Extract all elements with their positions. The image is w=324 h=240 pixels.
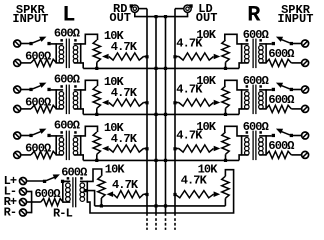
- resistor 600ohm R-L input: [41, 199, 63, 206]
- wire resistor to T1 primary bottom: [56, 62, 63, 64]
- wire 4.7K to bus1: [144, 102, 148, 104]
- wire SW4 to transformer T4 primary top: [64, 180, 70, 182]
- pot 10K row1 right: [222, 40, 229, 62]
- wire T3 secondary top to pot elbow: [74, 126, 98, 136]
- svg-text:4.7K: 4.7K: [181, 174, 208, 188]
- wire J10 sleeve down: [187, 12, 189, 17]
- transformer T4 secondary rings: [80, 183, 85, 188]
- svg-text:600Ω: 600Ω: [243, 120, 269, 134]
- transformer T7 core: [255, 131, 257, 161]
- switch SW3 blade arrowhead: [39, 129, 46, 134]
- resistor 600ohm input row1 right: [266, 59, 291, 66]
- wire T4 secondary bottom loop to right pot top: [87, 170, 233, 213]
- wire J2A to switch SW2: [21, 89, 30, 91]
- junction rail/common B R-L: [164, 204, 167, 207]
- transformer T6 secondary phase dot: [246, 85, 249, 88]
- wire J1A to switch SW1: [21, 43, 30, 45]
- wire J3A to switch SW3: [21, 135, 30, 137]
- pot wiper arrow row3 left: [102, 146, 109, 152]
- transformer T1 secondary phase dot: [74, 39, 77, 42]
- pot 10K row3 left: [93, 132, 100, 154]
- pot wiper arrow row1 right: [214, 54, 221, 60]
- transformer T2 secondary outer bar: [80, 89, 82, 109]
- wire J3B to resistor: [21, 154, 31, 156]
- switch SW5 contact 2: [272, 42, 275, 45]
- transformer T4 primary outer bar: [62, 181, 64, 203]
- wire resistor to T6 primary bottom: [259, 108, 266, 110]
- wire bus4 to 4.7K: [175, 148, 179, 150]
- wire T6 secondary bottom to rail: [239, 109, 249, 115]
- wire pot bottom to rail junction right: [225, 62, 227, 68]
- wire resistor to T5 primary bottom: [259, 62, 266, 64]
- junction pot bottom R-L left: [100, 204, 103, 207]
- transformer T5 secondary outer bar: [241, 43, 243, 63]
- junction 4.7K/bus4 row1: [173, 55, 176, 58]
- svg-text:600Ω: 600Ω: [25, 142, 51, 156]
- junction 4.7K/bus1 row3: [145, 147, 148, 150]
- wire SW5 to transformer T5 primary top: [259, 43, 272, 45]
- transformer T5 secondary rings: [245, 46, 250, 51]
- jack R- terminal: [20, 209, 27, 216]
- transformer T1 core: [65, 39, 67, 69]
- wire SW3 to transformer T3 primary top: [51, 135, 64, 137]
- jack J3B speaker input sleeve row3 L: [14, 151, 21, 158]
- jack J9 RD OUT inner ring: [133, 7, 136, 10]
- transformer T2 primary outer bar: [55, 89, 57, 109]
- wire J5A to switch SW5: [293, 43, 302, 45]
- transformer T6 primary outer bar: [265, 89, 267, 109]
- junction rail/common B row3: [164, 159, 167, 162]
- svg-text:R: R: [247, 2, 261, 27]
- wire L- down to R-: [31, 191, 33, 214]
- jack J3A speaker input tip row3 L: [14, 132, 21, 139]
- transformer T7 secondary outer bar: [241, 135, 243, 155]
- transformer T2 secondary rings: [73, 92, 78, 97]
- wire pot bottom to rail junction right: [225, 108, 227, 114]
- wire bus 2 (common A): [155, 17, 157, 216]
- transformer T7 secondary phase dot: [246, 131, 249, 134]
- jack J6B speaker input sleeve row2 R: [302, 105, 309, 112]
- wire T6 secondary top to pot elbow: [225, 80, 249, 90]
- wire resistor to T4 primary bottom: [63, 201, 70, 203]
- wire J9 tip to bus1: [138, 8, 147, 10]
- svg-text:OUT: OUT: [109, 11, 131, 25]
- wire pot bottom to rail junction right: [225, 154, 227, 160]
- switch SW6 blade: [281, 85, 290, 89]
- wire bus4 to 4.7K: [175, 56, 179, 58]
- svg-text:4.7K: 4.7K: [111, 40, 138, 54]
- svg-text:L: L: [62, 2, 75, 27]
- svg-text:600Ω: 600Ω: [54, 73, 80, 87]
- switch SW6 blade arrowhead: [276, 83, 283, 88]
- pot 10K row1 left: [93, 40, 100, 62]
- jack J2B speaker input sleeve row2 L: [14, 105, 21, 112]
- switch SW4 blade arrowhead: [53, 174, 60, 179]
- junction rail/common B row2: [164, 113, 167, 116]
- svg-text:600Ω: 600Ω: [61, 166, 87, 180]
- jack R+ terminal: [20, 199, 27, 206]
- wire pot bottom to rail junction: [96, 154, 98, 160]
- junction rail/common A row3: [154, 159, 157, 162]
- switch SW1 blade arrowhead: [39, 37, 46, 42]
- switch SW7 blade: [281, 131, 290, 135]
- transformer T7 primary rings: [259, 138, 264, 143]
- wire pot bottom to rail junction: [96, 108, 98, 114]
- switch SW1 contact 1: [29, 42, 32, 45]
- pot wiper arrow R-L right: [214, 191, 221, 197]
- transformer T2 core: [65, 85, 67, 115]
- switch SW4 contact 2: [61, 180, 64, 183]
- pot wiper arrow R-L left: [107, 191, 114, 197]
- transformer T7 primary phase dot: [259, 131, 262, 134]
- svg-text:4.7K: 4.7K: [112, 178, 139, 192]
- pot 10K R-L left: [98, 176, 105, 198]
- wire J9 sleeve down: [134, 12, 136, 17]
- switch SW4 blade: [46, 177, 55, 181]
- wire 4.7K to bus1: [144, 148, 148, 150]
- switch SW2 contact 1: [29, 88, 32, 91]
- jack J5B speaker input sleeve row1 R: [302, 59, 309, 66]
- svg-text:4.7K: 4.7K: [176, 128, 203, 142]
- wire J6B to resistor: [291, 108, 301, 110]
- resistor 4.7K row1 left: [109, 53, 144, 60]
- svg-text:R-L: R-L: [53, 207, 73, 221]
- wire T4 secondary top to pot elbow: [80, 169, 102, 181]
- wire J5B to resistor: [291, 62, 301, 64]
- wire J10 tip to bus4: [175, 8, 184, 10]
- junction 4.7K/bus4 row2: [173, 101, 176, 104]
- jack J10 LD OUT outer ring: [184, 5, 191, 12]
- switch SW7 blade arrowhead: [276, 129, 283, 134]
- transformer T3 secondary rings: [73, 138, 78, 143]
- wire T7 secondary top to pot elbow: [225, 126, 249, 136]
- svg-text:OUT: OUT: [196, 11, 218, 25]
- wire bus 3 (common B): [165, 17, 167, 216]
- transformer T7 primary outer bar: [265, 135, 267, 155]
- switch SW5 blade arrowhead: [276, 37, 283, 42]
- transformer T6 secondary rings: [245, 92, 250, 97]
- switch SW1 blade: [33, 39, 42, 43]
- junction rail/common A R-L: [154, 204, 157, 207]
- transformer T5 primary outer bar: [265, 43, 267, 63]
- wire SW7 to transformer T7 primary top: [259, 135, 272, 137]
- wire 4.7K to bus1 (R-L): [144, 193, 148, 195]
- transformer T4 secondary outer bar: [86, 181, 88, 203]
- svg-text:4.7K: 4.7K: [176, 82, 203, 96]
- switch SW2 blade arrowhead: [39, 83, 46, 88]
- wire R- right: [27, 212, 32, 214]
- transformer T5 secondary phase dot: [246, 39, 249, 42]
- pot wiper arrow row1 left: [102, 54, 109, 60]
- transformer T2 primary phase dot: [60, 85, 63, 88]
- pot 10K row3 right: [222, 132, 229, 154]
- transformer T3 primary outer bar: [55, 135, 57, 155]
- jack J10 LD OUT tab: [189, 4, 192, 7]
- svg-text:INPUT: INPUT: [277, 12, 313, 26]
- wire resistor to T3 primary bottom: [56, 154, 63, 156]
- wire T5 secondary bottom to rail: [239, 63, 249, 69]
- resistor 4.7K row1 right: [179, 53, 214, 60]
- wire J7B to resistor: [291, 154, 301, 156]
- junction pot bottom row3 left: [95, 159, 98, 162]
- switch SW3 blade: [33, 131, 42, 135]
- wire L- right: [27, 191, 32, 193]
- pot wiper arrow row2 left: [102, 100, 109, 106]
- switch SW6 contact 1: [290, 88, 293, 91]
- wire bus 4 dashed continuation: [174, 218, 176, 230]
- wire L+ to switch SW4: [27, 180, 44, 182]
- wire J6A to switch SW6: [293, 89, 302, 91]
- jack J5A speaker input tip row1 R: [302, 40, 309, 47]
- transformer T6 primary phase dot: [259, 85, 262, 88]
- wire rail row1 (pot cold sides to common buses): [83, 67, 239, 69]
- svg-text:600Ω: 600Ω: [268, 139, 294, 153]
- switch SW7 contact 1: [290, 134, 293, 137]
- pot 10K R-L right: [222, 176, 229, 198]
- switch SW5 contact 1: [290, 42, 293, 45]
- svg-text:10K: 10K: [105, 162, 126, 176]
- transformer T5 core: [255, 39, 257, 69]
- switch SW2 blade: [33, 85, 42, 89]
- wire T2 secondary bottom to rail: [74, 109, 84, 115]
- pot wiper arrow row2 right: [214, 100, 221, 106]
- svg-text:600Ω: 600Ω: [54, 119, 80, 133]
- svg-text:600Ω: 600Ω: [25, 50, 51, 64]
- jack J10 LD OUT inner ring: [186, 7, 189, 10]
- resistor 4.7K row3 left: [109, 145, 144, 152]
- junction rail/common B row1: [164, 67, 167, 70]
- transformer T4 primary phase dot: [67, 177, 70, 180]
- svg-text:600Ω: 600Ω: [25, 96, 51, 110]
- svg-text:4.7K: 4.7K: [176, 36, 203, 50]
- resistor 600ohm input row3 right: [266, 151, 291, 158]
- junction 4.7K/bus1 row2: [145, 101, 148, 104]
- junction pot bottom row1 left: [95, 67, 98, 70]
- transformer T2 primary rings: [59, 92, 64, 97]
- jack J1B speaker input sleeve row1 L: [14, 59, 21, 66]
- junction 4.7K/bus4 R-L: [173, 193, 176, 196]
- pot 10K row2 left: [93, 86, 100, 108]
- wire J7A to switch SW7: [293, 135, 302, 137]
- resistor 600ohm input row3 left: [31, 151, 56, 158]
- transformer T4 secondary phase dot: [80, 177, 83, 180]
- wire SW2 to transformer T2 primary top: [51, 89, 64, 91]
- jack J1A speaker input tip row1 L: [14, 40, 21, 47]
- transformer T2 secondary phase dot: [74, 85, 77, 88]
- svg-text:4.7K: 4.7K: [111, 132, 138, 146]
- transformer T3 core: [65, 131, 67, 161]
- svg-text:4.7K: 4.7K: [111, 86, 138, 100]
- junction sleeve bus / common B: [164, 15, 167, 18]
- svg-text:600Ω: 600Ω: [35, 187, 61, 201]
- resistor 600ohm input row2 right: [266, 105, 291, 112]
- jack J7A speaker input tip row3 R: [302, 132, 309, 139]
- transformer T5 primary phase dot: [259, 39, 262, 42]
- resistor 4.7K row2 left: [109, 99, 144, 106]
- wire T2 secondary top to pot elbow: [74, 80, 98, 90]
- jack J9 RD OUT outer ring: [131, 5, 138, 12]
- jack J7B speaker input sleeve row3 R: [302, 151, 309, 158]
- transformer T4 center tap junction: [84, 189, 87, 192]
- transformer T1 primary phase dot: [60, 39, 63, 42]
- wire rail row2 (pot cold sides to common buses): [83, 113, 239, 115]
- switch SW1 contact 2: [47, 42, 50, 45]
- transformer T3 secondary outer bar: [80, 135, 82, 155]
- transformer T3 primary rings: [59, 138, 64, 143]
- switch SW3 contact 1: [29, 134, 32, 137]
- jack L- terminal: [20, 188, 27, 195]
- transformer T1 primary outer bar: [55, 43, 57, 63]
- wire T7 secondary bottom to rail: [239, 155, 249, 161]
- wire bus 1 (RD tip): [146, 9, 148, 216]
- transformer T3 secondary phase dot: [74, 131, 77, 134]
- junction pot bottom row3 right: [224, 159, 227, 162]
- wire J2B to resistor: [21, 108, 31, 110]
- pot 10K row2 right: [222, 86, 229, 108]
- resistor 4.7K R-L left: [113, 191, 143, 198]
- wire 4.7K to bus1: [144, 56, 148, 58]
- transformer T6 secondary outer bar: [241, 89, 243, 109]
- wire SW4 contact to T4 primary top edge: [64, 180, 70, 182]
- wire T3 secondary bottom to rail: [74, 155, 84, 161]
- wire bus 4 (LD tip): [174, 9, 176, 216]
- svg-text:600Ω: 600Ω: [243, 74, 269, 88]
- wire sleeve bus horizontal: [134, 16, 188, 18]
- junction 4.7K/bus1 row1: [145, 55, 148, 58]
- wire resistor to T2 primary bottom: [56, 108, 63, 110]
- jack J2A speaker input tip row2 L: [14, 86, 21, 93]
- junction rail/common A row1: [154, 67, 157, 70]
- pot wiper arrow row3 right: [214, 146, 221, 152]
- wire pot bottom to rail (R-L left): [100, 198, 102, 206]
- jack L+ terminal: [20, 178, 27, 185]
- transformer T1 secondary outer bar: [80, 43, 82, 63]
- transformer T3 primary phase dot: [60, 131, 63, 134]
- junction 4.7K/bus1 R-L: [145, 193, 148, 196]
- transformer T6 primary rings: [259, 92, 264, 97]
- resistor 4.7K row3 right: [179, 145, 214, 152]
- wire pot bottom to rail (R-L right): [224, 198, 226, 206]
- wire T1 secondary top to pot elbow: [74, 34, 98, 44]
- junction sleeve bus / common A: [154, 15, 157, 18]
- wire resistor to T7 primary bottom: [259, 154, 266, 156]
- svg-text:600Ω: 600Ω: [54, 27, 80, 41]
- svg-text:600Ω: 600Ω: [268, 47, 294, 61]
- wire R+ to resistor: [27, 201, 41, 203]
- wire T5 secondary top to pot elbow: [225, 34, 249, 44]
- switch SW5 blade: [281, 39, 290, 43]
- transformer T1 primary rings: [59, 46, 64, 51]
- svg-text:600Ω: 600Ω: [243, 28, 269, 42]
- wire pot bottom to rail junction: [96, 62, 98, 68]
- svg-text:600Ω: 600Ω: [268, 93, 294, 107]
- transformer T7 secondary rings: [245, 138, 250, 143]
- junction 4.7K/bus4 row3: [173, 147, 176, 150]
- wire bus 1 dashed continuation: [146, 218, 148, 230]
- wire SW6 to transformer T6 primary top: [259, 89, 272, 91]
- wire T1 secondary bottom to rail: [74, 63, 84, 69]
- jack J9 RD OUT tab: [130, 4, 133, 7]
- wire bus4 to 4.7K: [175, 102, 179, 104]
- svg-text:R-: R-: [4, 206, 17, 220]
- svg-text:INPUT: INPUT: [12, 12, 48, 26]
- junction rail/common A row2: [154, 113, 157, 116]
- junction pot bottom row2 right: [224, 113, 227, 116]
- transformer T4 core: [72, 177, 74, 207]
- resistor 600ohm input row2 left: [31, 105, 56, 112]
- switch SW7 contact 2: [272, 134, 275, 137]
- switch SW6 contact 2: [272, 88, 275, 91]
- switch SW3 contact 2: [47, 134, 50, 137]
- resistor 4.7K R-L right: [175, 191, 214, 198]
- switch SW2 contact 2: [47, 88, 50, 91]
- jack J6A speaker input tip row2 R: [302, 86, 309, 93]
- transformer T1 secondary rings: [73, 46, 78, 51]
- wire rail row3 (pot cold sides to common buses): [83, 159, 239, 161]
- wire T4 center tap to rail: [87, 191, 95, 206]
- transformer T5 primary rings: [259, 46, 264, 51]
- wire SW1 to transformer T1 primary top: [51, 43, 64, 45]
- wire bus 2 dashed continuation: [155, 218, 157, 230]
- transformer T4 primary rings: [66, 183, 71, 188]
- switch SW4 contact 1: [43, 180, 46, 183]
- junction pot bottom row2 left: [95, 113, 98, 116]
- resistor 600ohm input row1 left: [31, 59, 56, 66]
- transformer T6 core: [255, 85, 257, 115]
- wire J1B to resistor: [21, 62, 31, 64]
- junction pot bottom row1 right: [224, 67, 227, 70]
- resistor 4.7K row2 right: [179, 99, 214, 106]
- wire bus 3 dashed continuation: [165, 218, 167, 230]
- wire rail R-L: [95, 205, 226, 207]
